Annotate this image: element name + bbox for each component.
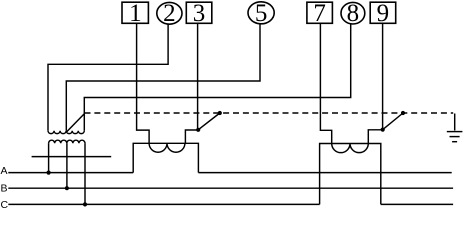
PT primary lead to phase B [66, 143, 68, 188]
PT earthing blade (diagonal link to dashed earth line) [66, 114, 84, 133]
junction dot PT-B [65, 186, 69, 190]
phase A line (right segment) [198, 172, 451, 174]
CT1 earthing blade [198, 113, 220, 130]
phase A line (left segment) [8, 172, 133, 174]
current transformer CT1 secondary winding (2 arcs) [149, 143, 185, 152]
node K1 junction dot [196, 128, 200, 132]
wire terminal5 to PT secondary lead b [66, 24, 260, 131]
svg-text:B: B [1, 183, 8, 195]
svg-text:2: 2 [163, 0, 176, 27]
terminal 9 (current, square) [370, 0, 396, 27]
terminal 1 (current, square) [122, 0, 148, 27]
svg-text:8: 8 [347, 0, 360, 27]
earth tap dot on dashed line (CT1) [218, 111, 222, 115]
node K2 junction dot [381, 128, 385, 132]
svg-text:7: 7 [313, 0, 326, 27]
PT core bar [32, 156, 112, 158]
voltage transformer PT primary winding (bottom coil, 6 arcs) [49, 140, 85, 143]
svg-text:5: 5 [255, 0, 268, 27]
svg-text:C: C [1, 199, 9, 210]
terminal 8 (voltage, circle) [341, 0, 365, 27]
CT2 primary: phase C routed over coil [320, 144, 381, 205]
wire terminal9 down to node K2 [382, 23, 384, 129]
phase B line [8, 187, 453, 189]
CT2 earthing blade [383, 113, 403, 130]
terminal 7 (current, square) [307, 0, 333, 27]
current transformer CT2 secondary winding (2 arcs) [332, 144, 369, 153]
wire terminal7 to CT2 secondary left (with step) [320, 23, 331, 143]
phase C line (right segment) [381, 203, 453, 205]
wire terminal1 to CT1 secondary left (with step) [137, 23, 150, 143]
ground symbol [447, 114, 463, 142]
wire terminal3 down to node K1 [197, 23, 199, 129]
svg-text:9: 9 [377, 0, 390, 27]
earth tap dot on dashed line (CT2) [401, 111, 405, 115]
svg-text:3: 3 [193, 0, 206, 27]
PT primary lead to phase C [84, 143, 86, 204]
junction dot PT-A [47, 171, 51, 175]
CT1 secondary right lead from node K1 [185, 130, 197, 143]
dashed earth line [85, 112, 454, 114]
voltage transformer PT secondary winding (top coil, 6 arcs) [48, 131, 84, 134]
terminal 3 (current, square) [186, 0, 212, 27]
CT1 primary: phase A routed over coil [133, 143, 198, 172]
wire terminal8 to PT secondary lead c [84, 24, 350, 131]
CT2 secondary right lead from node K2 [368, 130, 382, 144]
svg-text:A: A [1, 165, 8, 177]
junction dot PT-C [83, 202, 87, 206]
phase C line (left segment) [8, 203, 319, 205]
wire terminal2 to PT secondary lead a [48, 24, 168, 131]
PT primary lead to phase A [48, 143, 50, 172]
terminal 5 (voltage, circle) [248, 0, 274, 27]
svg-text:1: 1 [129, 0, 142, 27]
terminal 2 (voltage, circle) [157, 0, 182, 27]
